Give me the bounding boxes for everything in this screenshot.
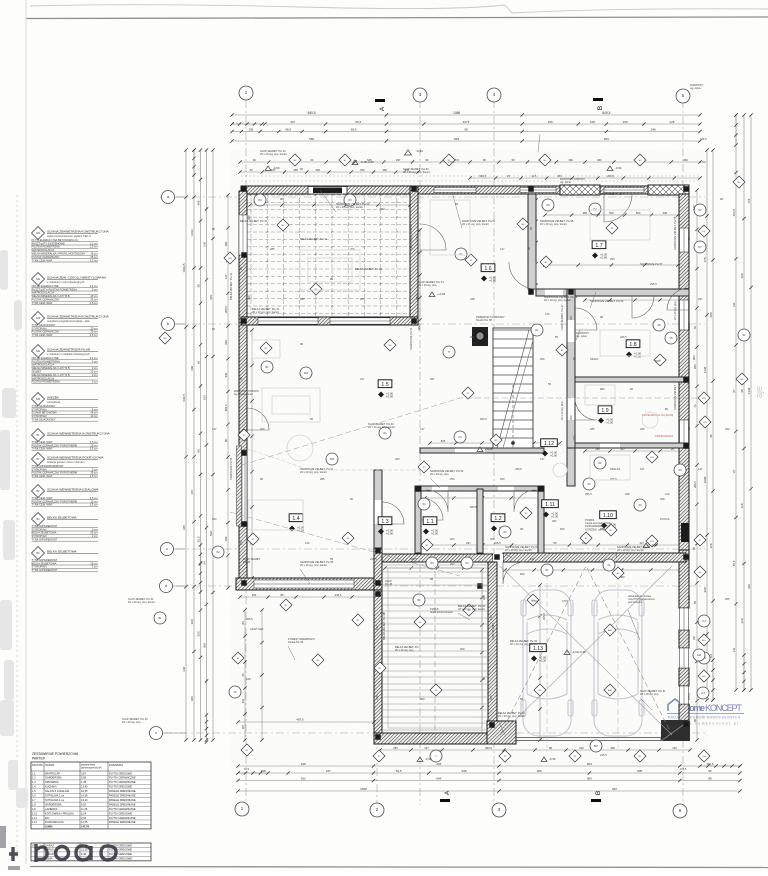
svg-text:TYNK CEM.-WAP.: TYNK CEM.-WAP. — [32, 496, 53, 500]
svg-text:912: 912 — [301, 776, 306, 780]
svg-text:97: 97 — [732, 470, 736, 474]
svg-text:60: 60 — [693, 718, 697, 721]
svg-text:147: 147 — [375, 625, 379, 630]
svg-text:14,34: 14,34 — [81, 798, 88, 802]
svg-text:265,5: 265,5 — [687, 323, 691, 330]
svg-text:111: 111 — [732, 647, 736, 652]
room label 1.2 — [491, 514, 505, 522]
svg-text:905: 905 — [587, 776, 592, 780]
svg-text:25 cm: 25 cm — [90, 298, 97, 302]
svg-text:20 x 20 wg. proj. konstr.: 20 x 20 wg. proj. konstr. — [403, 170, 431, 174]
svg-text:88: 88 — [549, 746, 552, 750]
svg-text:-0,35: -0,35 — [651, 543, 658, 547]
svg-text:25 cm: 25 cm — [90, 443, 97, 447]
svg-text:360: 360 — [540, 357, 545, 361]
svg-text:KOMUNIKACJA: KOMUNIKACJA — [45, 820, 64, 824]
bottom dimension strip — [238, 765, 740, 767]
svg-text:WIATROIZOLACJA: WIATROIZOLACJA — [32, 363, 55, 367]
svg-text:230: 230 — [202, 242, 206, 247]
svg-text:BELKA ZELBET. Pw 41: BELKA ZELBET. Pw 41 — [355, 267, 383, 271]
svg-text:80: 80 — [330, 277, 333, 281]
svg-text:115,5: 115,5 — [706, 762, 714, 766]
svg-text:348: 348 — [660, 497, 665, 501]
svg-text:137: 137 — [530, 557, 535, 561]
svg-text:300: 300 — [202, 643, 206, 648]
svg-text:245,5: 245,5 — [370, 557, 377, 561]
svg-text:625: 625 — [579, 746, 584, 750]
svg-text:500: 500 — [380, 207, 385, 211]
west wall window (terrace) — [239, 215, 247, 255]
svg-text:55,5: 55,5 — [732, 560, 736, 566]
svg-text:NADPROZE ZELBET.: NADPROZE ZELBET. — [673, 384, 677, 410]
svg-text:+0,00: +0,00 — [431, 531, 439, 535]
svg-text:265,5: 265,5 — [542, 613, 546, 620]
svg-text:694,5: 694,5 — [182, 394, 186, 402]
svg-text:2,5%: 2,5% — [700, 160, 707, 164]
svg-text:605: 605 — [587, 762, 592, 766]
svg-text:PUSTKA POWIETRZNA: PUSTKA POWIETRZNA — [32, 245, 61, 249]
svg-text:1,5 cm: 1,5 cm — [90, 258, 98, 262]
svg-text:265,5: 265,5 — [585, 492, 592, 496]
svg-text:1.1: 1.1 — [32, 771, 36, 775]
legend block S22 — [32, 273, 45, 286]
svg-text:ZELBET: ZELBET — [32, 370, 42, 374]
svg-text:88: 88 — [281, 593, 284, 597]
svg-text:5,24: 5,24 — [81, 811, 87, 815]
svg-text:260: 260 — [640, 427, 645, 431]
svg-text:25 cm: 25 cm — [90, 561, 97, 565]
room label 1.1 — [423, 517, 437, 525]
svg-text:98: 98 — [740, 389, 744, 393]
svg-text:253: 253 — [572, 435, 576, 440]
svg-text:120: 120 — [672, 746, 677, 750]
svg-text:345: 345 — [209, 295, 213, 300]
step wall — [374, 548, 382, 590]
svg-text:253: 253 — [241, 698, 245, 703]
dashed projection lines living area — [242, 398, 700, 465]
svg-text:992: 992 — [612, 787, 617, 791]
svg-text:ZESTAWIENIE POWIERZCHNI: ZESTAWIENIE POWIERZCHNI — [32, 752, 78, 756]
svg-text:wg. opisu: wg. opisu — [560, 180, 572, 184]
extra chain bottom patio — [238, 721, 374, 723]
svg-text:360: 360 — [490, 537, 495, 541]
svg-text:PLYTKI CERAMICZNE: PLYTKI CERAMICZNE — [109, 780, 136, 784]
svg-text:1.11: 1.11 — [32, 816, 37, 820]
svg-text:RUSZT/LATY SYSTEMOWE: RUSZT/LATY SYSTEMOWE — [32, 241, 65, 245]
structural grid axes: dashed verticals — [245, 100, 247, 805]
svg-text:1008: 1008 — [703, 476, 707, 483]
svg-text:2,5%: 2,5% — [448, 160, 455, 164]
svg-text:1.10: 1.10 — [603, 513, 613, 519]
svg-text:GARDEROBA: GARDEROBA — [45, 802, 62, 806]
svg-text:BELKA ZELBETOWA: BELKA ZELBETOWA — [32, 531, 57, 535]
top dimension strip — [232, 114, 700, 116]
legend block B7 — [32, 453, 45, 466]
svg-text:1.7: 1.7 — [32, 798, 36, 802]
svg-text:0,5%: 0,5% — [562, 599, 569, 603]
svg-text:TYNK GIPS/WAP.REMONT: TYNK GIPS/WAP.REMONT — [32, 464, 64, 468]
svg-text:246: 246 — [651, 127, 656, 131]
svg-text:98,5: 98,5 — [285, 127, 291, 131]
svg-text:SCIANA ZEWNETRZNA KONSTRUKCYJN: SCIANA ZEWNETRZNA KONSTRUKCYJNA — [47, 314, 110, 318]
svg-text:98: 98 — [224, 439, 228, 442]
svg-text:297: 297 — [466, 541, 471, 545]
svg-text:PUSTAK CERAMICZNY POROTHERM: PUSTAK CERAMICZNY POROTHERM — [32, 499, 78, 503]
left chain clusters — [193, 150, 195, 175]
svg-text:405: 405 — [436, 762, 441, 766]
svg-text:460: 460 — [740, 273, 744, 278]
rotated wall annotations — [229, 216, 677, 640]
svg-text:25 cm: 25 cm — [90, 255, 97, 259]
svg-text:3 cm: 3 cm — [92, 467, 98, 471]
svg-text:297: 297 — [569, 315, 573, 320]
svg-text:4273: 4273 — [463, 120, 470, 124]
svg-text:1,5 cm: 1,5 cm — [90, 440, 98, 444]
svg-text:1.9: 1.9 — [32, 807, 36, 811]
svg-text:178: 178 — [703, 257, 707, 262]
svg-text:20 x 20 wg. proj.: 20 x 20 wg. proj. — [418, 283, 437, 287]
svg-text:GARAZ: GARAZ — [45, 843, 54, 847]
svg-text:25 cm: 25 cm — [90, 471, 97, 475]
svg-text:11,36: 11,36 — [81, 807, 88, 811]
svg-text:PRALKA: PRALKA — [610, 467, 621, 471]
svg-text:c: c — [166, 546, 168, 551]
svg-text:200: 200 — [224, 536, 228, 541]
svg-text:55,5: 55,5 — [196, 536, 200, 542]
svg-text:25 cm: 25 cm — [90, 531, 97, 535]
svg-text:SYPIALNIA 1-os.: SYPIALNIA 1-os. — [45, 794, 65, 798]
south terrace inner offset rect — [388, 568, 482, 728]
svg-text:PLYTKI GRESOWE: PLYTKI GRESOWE — [109, 771, 132, 775]
svg-text:265,5: 265,5 — [693, 481, 697, 488]
garage north wall — [503, 553, 686, 562]
svg-text:OKAP NAD: OKAP NAD — [250, 627, 263, 631]
svg-text:1.13: 1.13 — [533, 646, 543, 652]
terrace overhang dotted lines — [241, 175, 700, 177]
interior small dim numbers — [212, 167, 730, 757]
north wall windows — [434, 188, 476, 193]
chimney shaft — [472, 327, 488, 346]
svg-text:348: 348 — [461, 769, 466, 773]
svg-text:625: 625 — [441, 439, 446, 443]
svg-text:20 x 20 wg. proj.: 20 x 20 wg. proj. — [430, 472, 449, 476]
1.11 divider — [538, 486, 544, 553]
svg-text:55: 55 — [555, 335, 558, 339]
svg-text:WELNA MINERALNA / PROFIL MONTA: WELNA MINERALNA / PROFIL MONTAZOWY — [32, 252, 86, 256]
svg-text:SLUP ZELBET.: SLUP ZELBET. — [491, 622, 495, 640]
svg-text:20 x 20 wg. proj.: 20 x 20 wg. proj. — [673, 301, 677, 320]
svg-text:14,38: 14,38 — [81, 794, 88, 798]
svg-text:wykonczona betonem plytami TEK: wykonczona betonem plytami TEK-C — [47, 234, 91, 238]
svg-text:983: 983 — [600, 387, 605, 391]
svg-text:98: 98 — [709, 434, 713, 438]
svg-text:600: 600 — [190, 365, 194, 370]
svg-text:147,78: 147,78 — [81, 825, 89, 829]
svg-text:20 x 20 wg. proj. konstr.: 20 x 20 wg. proj. konstr. — [300, 563, 328, 567]
svg-text:KOTLOWNIA I PRALNIA: KOTLOWNIA I PRALNIA — [45, 811, 74, 815]
top-left chain cluster — [232, 123, 262, 125]
svg-text:1.4: 1.4 — [292, 516, 299, 522]
svg-text:360: 360 — [470, 335, 475, 339]
svg-text:297: 297 — [692, 635, 696, 640]
svg-text:983: 983 — [692, 355, 696, 360]
svg-text:c: c — [155, 730, 157, 735]
svg-text:6,20: 6,20 — [81, 802, 87, 806]
svg-text:NADPROZE Pw 52: NADPROZE Pw 52 — [229, 457, 233, 480]
svg-text:120: 120 — [545, 312, 550, 316]
svg-text:PANELE DREWNIANE: PANELE DREWNIANE — [109, 820, 136, 824]
svg-text:NADPROZE ZELBET. Pw 58: NADPROZE ZELBET. Pw 58 — [673, 216, 677, 250]
kitchen stub wall — [420, 448, 544, 453]
svg-text:20 x 20 wg. proj. konstr.: 20 x 20 wg. proj. konstr. — [336, 205, 364, 209]
svg-text:55: 55 — [693, 601, 697, 604]
svg-text:20 x 20 wg. proj.: 20 x 20 wg. proj. — [122, 720, 141, 724]
svg-text:90: 90 — [300, 167, 303, 171]
svg-text:683,5: 683,5 — [660, 737, 667, 741]
svg-text:55: 55 — [548, 382, 551, 386]
svg-text:1.6: 1.6 — [484, 266, 491, 272]
svg-text:500: 500 — [560, 527, 565, 531]
svg-text:PUSTAK CERAMICZNY: PUSTAK CERAMICZNY — [32, 298, 60, 302]
svg-text:SLUP ZELBET. Pw 47: SLUP ZELBET. Pw 47 — [560, 304, 564, 330]
svg-text:348: 348 — [662, 211, 667, 215]
svg-text:360: 360 — [583, 211, 588, 215]
svg-text:-0,90: -0,90 — [273, 166, 280, 170]
svg-text:+0,00: +0,00 — [386, 394, 394, 398]
svg-text:90: 90 — [425, 158, 428, 162]
svg-text:20 x 20 wg. proj. konstr.: 20 x 20 wg. proj. konstr. — [498, 714, 526, 718]
svg-text:20 x 20 wg. proj. konstr.: 20 x 20 wg. proj. konstr. — [544, 298, 572, 302]
svg-text:348: 348 — [625, 492, 630, 496]
svg-text:1.6: 1.6 — [32, 794, 36, 798]
svg-text:12,55: 12,55 — [81, 820, 88, 824]
legend block B3 — [32, 547, 45, 560]
svg-text:245,5: 245,5 — [515, 467, 522, 471]
svg-text:20 x 20 wg. proj. konstr.: 20 x 20 wg. proj. konstr. — [300, 470, 328, 474]
svg-text:+0,00: +0,00 — [539, 658, 547, 662]
svg-text:944: 944 — [436, 776, 441, 780]
svg-text:NADPROZE ZELBET. Pw 59: NADPROZE ZELBET. Pw 59 — [590, 299, 624, 303]
svg-text:285: 285 — [725, 597, 730, 601]
svg-text:1.1: 1.1 — [426, 519, 433, 525]
svg-text:TYNK CEM.-WAP.: TYNK CEM.-WAP. — [32, 503, 53, 507]
svg-text:D03: D03 — [304, 372, 309, 375]
svg-text:3 cm: 3 cm — [92, 373, 98, 377]
svg-text:1.7: 1.7 — [595, 243, 602, 249]
svg-text:+0,00: +0,00 — [386, 531, 394, 535]
svg-text:147: 147 — [420, 427, 425, 431]
svg-text:55: 55 — [708, 769, 712, 773]
svg-text:2 cm: 2 cm — [92, 565, 98, 569]
svg-text:pod stropem: pod stropem — [628, 600, 642, 604]
right chain clusters — [735, 115, 737, 145]
svg-text:S22: S22 — [36, 278, 41, 281]
structural columns — [241, 186, 247, 192]
svg-text:Deska Pw 05: Deska Pw 05 — [288, 640, 304, 644]
svg-text:1,5 cm: 1,5 cm — [90, 474, 98, 478]
svg-text:1,5 cm: 1,5 cm — [90, 503, 98, 507]
svg-text:GARDEROBA: GARDEROBA — [45, 776, 62, 780]
svg-text:SPIZARNIA: SPIZARNIA — [45, 780, 59, 784]
svg-text:1.2: 1.2 — [32, 776, 36, 780]
east garage wall windows — [680, 608, 689, 630]
scan fold dotted line left — [16, 195, 18, 860]
detail marker circles — [326, 453, 338, 465]
svg-text:1.5: 1.5 — [32, 789, 36, 793]
svg-text:253: 253 — [450, 477, 455, 481]
chain right of east wall — [696, 190, 698, 740]
svg-text:1568: 1568 — [360, 787, 367, 791]
svg-text:PUSTAK CERAMICZNY POROTHERM: PUSTAK CERAMICZNY POROTHERM — [32, 443, 78, 447]
svg-text:80: 80 — [241, 621, 245, 624]
svg-text:297: 297 — [450, 562, 455, 566]
svg-text:13,45: 13,45 — [81, 785, 88, 789]
extra wall annotations — [544, 295, 578, 302]
svg-text:6,45: 6,45 — [81, 852, 87, 856]
svg-text:360: 360 — [247, 295, 251, 300]
chains below plan — [380, 749, 690, 751]
svg-text:1.8: 1.8 — [629, 342, 636, 348]
svg-text:20 x 20 wg. proj. konstr.: 20 x 20 wg. proj. konstr. — [505, 548, 533, 552]
svg-text:200: 200 — [395, 457, 400, 461]
1.1/1.2 divider — [477, 489, 483, 553]
svg-text:265,5: 265,5 — [224, 306, 228, 313]
svg-text:1,5 cm: 1,5 cm — [90, 333, 98, 337]
room label 1.11 — [542, 500, 559, 508]
svg-text:1.9: 1.9 — [601, 408, 608, 414]
svg-text:25 cm: 25 cm — [90, 330, 97, 334]
svg-text:285: 285 — [590, 427, 595, 431]
svg-text:1.3: 1.3 — [32, 780, 36, 784]
svg-text:izolacja gresem ziemi z domem: izolacja gresem ziemi z domem — [47, 460, 85, 464]
scattered construction annotations — [260, 149, 288, 156]
row bubbles left — [162, 191, 175, 204]
garage car 2 — [592, 590, 644, 736]
svg-text:WIATROIZOLACJA: WIATROIZOLACJA — [32, 376, 55, 380]
svg-text:55: 55 — [520, 697, 523, 701]
svg-text:20 cm: 20 cm — [90, 326, 97, 330]
sheet frame bottom line — [30, 867, 768, 868]
staircase — [493, 328, 533, 448]
svg-text:LAZIENKA: LAZIENKA — [45, 807, 58, 811]
legend block S21 — [32, 227, 45, 240]
svg-text:1.12: 1.12 — [544, 441, 554, 447]
leader lines — [252, 134, 652, 735]
svg-text:BELKA ZELBETOWA: BELKA ZELBETOWA — [47, 549, 78, 553]
grid axis dashed horizontals A-E — [160, 196, 705, 198]
svg-text:500: 500 — [655, 359, 660, 363]
misc short chains — [419, 230, 421, 320]
svg-text:348: 348 — [375, 695, 379, 700]
svg-text:285: 285 — [293, 168, 298, 172]
svg-text:80: 80 — [212, 227, 215, 231]
sliding window south — [254, 580, 354, 588]
svg-text:PANELE DREWNIANE: PANELE DREWNIANE — [109, 802, 136, 806]
svg-text:WIATROIZOLACJA: WIATROIZOLACJA — [32, 291, 55, 295]
svg-text:137: 137 — [489, 615, 493, 620]
svg-text:wg. opisu: wg. opisu — [690, 86, 702, 90]
svg-text:1.3: 1.3 — [381, 519, 388, 525]
svg-text:PUSTAK CERAMICZNY POROTHERM: PUSTAK CERAMICZNY POROTHERM — [32, 471, 78, 475]
svg-text:PLYTKI CERAMICZNE: PLYTKI CERAMICZNE — [109, 776, 136, 780]
svg-text:WIATROLAP: WIATROLAP — [45, 771, 60, 775]
svg-text:WELNA MINERALNA / LATY B.B: WELNA MINERALNA / LATY B.B — [32, 373, 70, 377]
svg-text:1.4: 1.4 — [32, 785, 36, 789]
svg-text:S25: S25 — [36, 398, 41, 401]
svg-text:348: 348 — [470, 297, 475, 301]
svg-text:98: 98 — [196, 284, 200, 288]
svg-text:18 cm: 18 cm — [90, 252, 97, 256]
svg-text:297: 297 — [552, 519, 557, 523]
svg-text:1.8: 1.8 — [32, 802, 36, 806]
svg-text:PLYTKI GRESOWE: PLYTKI GRESOWE — [109, 785, 132, 789]
svg-text:PANELE DREWNIANE: PANELE DREWNIANE — [109, 794, 136, 798]
svg-text:STYROPIAN: STYROPIAN — [32, 534, 47, 538]
east wall black pier — [681, 523, 689, 542]
svg-text:OKLAD.ELEWACYJNE: OKLAD.ELEWACYJNE — [32, 284, 59, 288]
svg-text:285: 285 — [393, 746, 398, 750]
interior chains above top wall — [240, 161, 700, 163]
east garage wall — [679, 550, 689, 608]
svg-text:TYNK CEM.-WAP.: TYNK CEM.-WAP. — [32, 440, 53, 444]
svg-text:3,68: 3,68 — [81, 776, 87, 780]
svg-text:983: 983 — [620, 575, 625, 579]
svg-text:128: 128 — [740, 503, 744, 508]
svg-text:2,5 cm: 2,5 cm — [90, 284, 98, 288]
svg-text:NADPROZE Pw 57: NADPROZE Pw 57 — [600, 192, 623, 196]
north wall crosshatch piers — [560, 185, 600, 195]
svg-text:-0,38/-0,90: -0,38/-0,90 — [360, 160, 374, 164]
svg-text:20 x 20 wg. proj.: 20 x 20 wg. proj. — [560, 401, 564, 420]
svg-text:55: 55 — [330, 557, 333, 561]
salon/corridor wall — [374, 470, 382, 548]
svg-text:178: 178 — [747, 198, 751, 203]
svg-text:200: 200 — [725, 427, 730, 431]
svg-text:348: 348 — [246, 677, 251, 681]
svg-text:-0,02/-0,35: -0,02/-0,35 — [572, 650, 586, 654]
svg-text:1013: 1013 — [190, 229, 194, 236]
room label 1.3 — [378, 517, 392, 525]
garage car 1 — [521, 590, 573, 736]
svg-text:+0,00: +0,00 — [600, 255, 608, 259]
svg-text:360: 360 — [252, 593, 257, 597]
svg-text:845: 845 — [454, 137, 459, 141]
grid bubbles bottom — [235, 802, 249, 816]
svg-text:940: 940 — [693, 364, 697, 369]
svg-text:STYROPIAN: STYROPIAN — [32, 527, 47, 531]
svg-text:983: 983 — [600, 527, 605, 531]
svg-text:Pw 45: Pw 45 — [385, 582, 393, 586]
svg-text:SCIANA WEWNETRZNA POKRYCIOWA: SCIANA WEWNETRZNA POKRYCIOWA — [47, 455, 104, 459]
svg-text:128: 128 — [709, 543, 713, 548]
svg-text:20 x 20 wg. proj. konstr.: 20 x 20 wg. proj. konstr. — [462, 222, 490, 226]
svg-text:138: 138 — [248, 127, 253, 131]
svg-text:80: 80 — [260, 477, 263, 481]
svg-text:SLUP ZELBET. Pw 44: SLUP ZELBET. Pw 44 — [409, 224, 413, 250]
svg-text:D03: D03 — [330, 458, 335, 461]
svg-text:586: 586 — [309, 137, 314, 141]
svg-text:SCIANA ZEW. COKOLU WENTYLOWANA: SCIANA ZEW. COKOLU WENTYLOWANA — [47, 275, 107, 279]
svg-text:360: 360 — [382, 168, 387, 172]
svg-text:427: 427 — [290, 120, 295, 124]
svg-text:+0,00: +0,00 — [489, 278, 497, 282]
svg-text:200: 200 — [569, 415, 573, 420]
svg-text:PRZEGRODA O2 [EI30]: PRZEGRODA O2 [EI30] — [642, 413, 673, 417]
svg-text:147: 147 — [639, 541, 644, 545]
svg-text:TYNK CEM.-WAP.: TYNK CEM.-WAP. — [32, 474, 53, 478]
legend block S23 — [32, 312, 45, 325]
svg-text:2 cm: 2 cm — [92, 534, 98, 538]
